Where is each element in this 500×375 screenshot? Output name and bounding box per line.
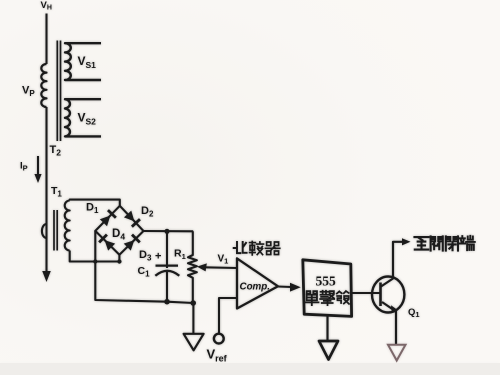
svg-text:Comp.: Comp.: [240, 282, 270, 293]
svg-text:555: 555: [316, 273, 337, 288]
svg-text:+: +: [155, 251, 161, 263]
